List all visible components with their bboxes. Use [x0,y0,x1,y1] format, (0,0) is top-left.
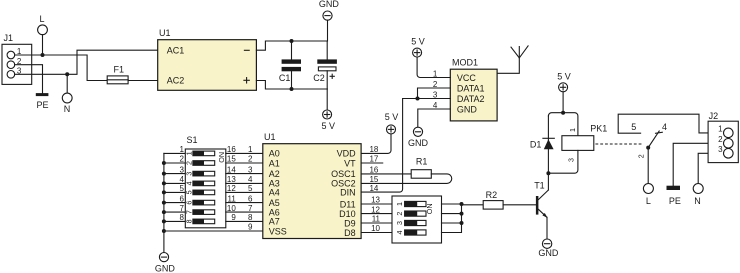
wire S1 pin 16 to U1 pin 1 [226,152,263,154]
svg-text:J1: J1 [4,33,14,43]
svg-text:D8: D8 [344,228,356,238]
connector J1 [2,33,32,84]
node bus junction [162,201,166,205]
wire S1 pin 11 to U1 pin 6 [226,202,263,204]
svg-text:9: 9 [248,223,253,232]
svg-text:11: 11 [372,215,381,224]
wire R1 to OSC2 (loop) [361,174,452,184]
capacitor C2 (polarized) [313,41,337,89]
terminal L (mains live) [38,14,48,35]
svg-text:2: 2 [718,135,723,144]
svg-text:12: 12 [371,205,380,214]
wire pole to L [647,148,649,184]
wire S1 pin 15 to U1 pin 2 [226,162,263,164]
pin minus of U1 [244,49,249,51]
wire S1 pin 12 to U1 pin 5 [226,191,263,193]
node bus junction [162,219,166,223]
svg-text:GND: GND [155,263,176,273]
svg-text:9: 9 [231,213,236,222]
svg-text:3: 3 [718,145,723,154]
wire OSC1 to R1 [361,173,411,175]
wire D1 branch [547,116,549,173]
wire DATA1 to DATA2 [418,88,451,99]
wire S1 pin 9 to U1 pin 8 [226,220,263,222]
svg-text:C1: C1 [279,73,291,83]
svg-text:5 V: 5 V [557,72,571,82]
svg-text:3: 3 [184,172,193,176]
svg-text:ON: ON [425,203,434,214]
node C1 bottom [290,87,294,91]
wire VSS to GND bus [164,230,263,232]
DIP switch S1 [184,135,226,228]
svg-text:A1: A1 [269,158,280,168]
wire VDD to 5V [361,134,391,154]
svg-text:3: 3 [248,165,253,174]
antenna [497,46,528,73]
svg-text:13: 13 [371,196,380,205]
wire bus to S1 pin 6 [164,202,185,204]
node junction N / pin3 [65,72,69,76]
svg-text:N: N [64,104,71,114]
wire N to pin3 [66,74,68,93]
wire bus to S1 pin 7 [164,211,185,213]
svg-text:GND: GND [319,0,340,9]
svg-text:5: 5 [248,184,253,193]
svg-text:18: 18 [369,145,378,154]
svg-text:R1: R1 [416,156,428,166]
svg-text:2: 2 [248,155,253,164]
wire bus to S1 pin 3 [164,173,185,175]
wire D9 to S2 [361,222,392,224]
ground PE (bar, right) [667,186,681,206]
encoder/decoder IC U1 [263,132,361,239]
svg-text:1: 1 [184,151,193,155]
node bus junction [162,190,166,194]
svg-text:ON: ON [217,152,226,163]
wire S1 pin 14 to U1 pin 3 [226,173,263,175]
node bus junction [162,172,166,176]
svg-text:DIN: DIN [340,187,356,197]
svg-text:VSS: VSS [269,226,287,236]
wire DATA2 [403,98,451,100]
wire bus to S1 pin 8 [164,220,185,222]
wire bus to S1 pin 5 [164,191,185,193]
svg-text:DATA1: DATA1 [457,83,485,93]
svg-text:8: 8 [184,219,193,223]
svg-text:17: 17 [369,155,378,164]
wire U1 plus to 5V rail [256,81,327,90]
wire S1 pin 13 to U1 pin 4 [226,182,263,184]
svg-text:5 V: 5 V [385,112,399,122]
svg-text:GND: GND [538,248,559,258]
resistor R2 [483,190,503,209]
contact 4 tick [656,132,663,133]
wire 5V to VCC [417,57,450,77]
svg-text:12: 12 [227,184,236,193]
ground GND symbol (S1 bus) [155,253,176,273]
svg-text:L: L [40,14,45,24]
svg-text:5: 5 [631,122,636,132]
svg-text:4: 4 [248,175,253,184]
node bus junction [162,210,166,214]
ground PE (bar) [36,93,49,110]
svg-text:5: 5 [184,190,193,194]
svg-text:4: 4 [662,122,667,132]
ground GND symbol (MOD1) [408,127,429,148]
node bus junction [162,181,166,185]
power 5V symbol (relay) [557,72,571,92]
svg-text:14: 14 [227,165,236,174]
pin plus of U1 [244,78,249,83]
receiver module MOD1 [450,57,497,121]
node S2 bus junctions [460,202,464,206]
resistor R1 [411,156,431,178]
ground GND symbol (T1) [538,239,559,258]
svg-text:10: 10 [227,204,236,213]
node C1 top [290,39,294,43]
svg-text:5 V: 5 V [411,36,425,46]
diode D1 [530,138,554,149]
wire N to J2 pin 3 [698,153,723,183]
wire contact 5 to J2 pin 1 [618,114,723,133]
wire bus to S1 pin 4 [164,182,185,184]
wire D10 to S2 [361,213,392,215]
svg-text:1: 1 [718,125,723,134]
svg-text:DATA2: DATA2 [457,94,485,104]
svg-text:A0: A0 [269,149,280,159]
svg-text:T1: T1 [534,180,545,190]
svg-text:16: 16 [227,145,236,154]
relay coil PK1 [562,123,607,162]
svg-text:2: 2 [395,212,404,216]
terminal L (load live) [643,184,653,207]
wire 5V to relay loop [562,92,564,113]
svg-text:OSC1: OSC1 [331,169,356,179]
svg-text:2: 2 [637,154,646,158]
transistor T1 [534,180,548,218]
wire relay loop bottom [548,150,578,173]
svg-text:16: 16 [369,166,378,175]
svg-text:L: L [646,196,651,206]
svg-text:D9: D9 [344,218,356,228]
svg-text:F1: F1 [114,64,125,74]
svg-text:N: N [694,196,701,206]
DIP switch S2 [392,196,442,243]
wire bus to S1 pin 1 [164,152,185,154]
wire D8 to S2 [361,232,392,234]
node junction DATA1/DATA2 [416,97,420,101]
wire F1 to AC2 [128,80,158,82]
wire T1 collector [547,173,549,190]
svg-text:1: 1 [568,128,577,132]
svg-text:10: 10 [371,224,380,233]
terminal N (load neutral) [693,184,703,207]
svg-text:A4: A4 [269,188,280,198]
wire MOD1 GND [418,109,451,127]
node junction D1/coil/collector [546,171,550,175]
svg-text:D1: D1 [530,140,542,150]
svg-text:AC1: AC1 [167,45,185,55]
wire bus to R2 [462,204,484,206]
capacitor C1 [279,41,301,89]
svg-text:GND: GND [457,104,478,114]
svg-text:AC2: AC2 [167,76,185,86]
svg-text:VDD: VDD [337,149,357,159]
svg-text:C2: C2 [313,73,325,83]
svg-text:7: 7 [184,210,193,214]
wire PE to J2 pin 2 [673,143,723,185]
svg-text:PK1: PK1 [590,123,607,133]
wire VT stub [361,162,383,164]
terminal N (mains neutral) [62,93,72,114]
svg-text:U1: U1 [159,28,171,38]
node junction L / pin1 [41,53,45,57]
svg-text:A2: A2 [269,169,280,179]
wire S2 right bus [442,204,462,233]
svg-text:5 V: 5 V [322,121,336,131]
wire L to J1 pin 1 [42,35,44,55]
wire GND bus left of S1 [163,153,165,252]
node pole pivot [646,146,650,150]
wire R2 to T1 base [503,204,536,206]
svg-text:A5: A5 [269,198,280,208]
wire J1 pin2 to PE [15,65,43,93]
wire T1 emitter to GND [546,217,548,239]
svg-text:1: 1 [248,145,253,154]
ground GND symbol (top) [319,0,340,41]
svg-text:3: 3 [395,221,404,225]
wire J1 pin3 to AC1 [15,50,158,74]
svg-text:S1: S1 [187,135,198,145]
svg-text:15: 15 [369,175,378,184]
power module U1 (AC/DC) [158,28,257,90]
svg-text:4: 4 [395,231,404,235]
svg-text:VT: VT [344,158,356,168]
wire D11 to S2 [361,203,392,205]
svg-text:U1: U1 [264,132,276,142]
power 5V symbol (VDD) [385,112,399,134]
wire relay loop top [548,113,578,136]
svg-text:MOD1: MOD1 [452,57,478,67]
wire DIN to DATA2 [361,99,403,193]
svg-text:13: 13 [227,175,236,184]
svg-text:6: 6 [248,194,253,203]
svg-text:6: 6 [184,201,193,205]
svg-text:3: 3 [567,158,576,162]
power 5V symbol (MOD1) [411,36,425,57]
svg-text:15: 15 [227,155,236,164]
svg-text:D11: D11 [340,199,356,209]
svg-text:8: 8 [248,213,253,222]
wire U1 minus to GND rail [256,41,327,50]
svg-text:GND: GND [408,138,429,148]
svg-text:PE: PE [37,100,49,110]
svg-text:14: 14 [369,184,378,193]
svg-text:R2: R2 [486,190,498,200]
relay armature [648,131,659,148]
mechanical link (dashed) [596,143,644,145]
svg-text:7: 7 [248,204,253,213]
svg-text:4: 4 [184,181,193,185]
svg-text:11: 11 [227,194,236,203]
svg-text:PE: PE [669,196,681,206]
svg-text:VCC: VCC [457,73,477,83]
fuse F1 [107,64,128,84]
node bus junction VSS [162,229,166,233]
wire J1 pin1 to fuse F1 [15,55,108,81]
svg-text:2: 2 [184,161,193,165]
svg-text:J2: J2 [709,111,719,121]
node bus junction [162,161,166,165]
node junction 5V/loop [561,111,565,115]
wire S1 pin 10 to U1 pin 7 [226,211,263,213]
wire bus to S1 pin 2 [164,162,185,164]
connector J2 [708,111,738,162]
svg-text:A7: A7 [269,217,280,227]
svg-text:1: 1 [395,202,404,206]
power 5V symbol (below C2) [322,89,336,131]
